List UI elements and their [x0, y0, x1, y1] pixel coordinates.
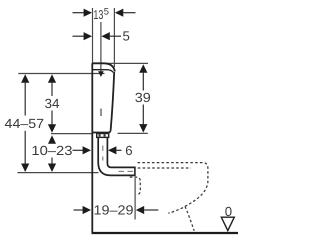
- dimension 6 line left tail: [73, 149, 84, 151]
- dimension 5 line right tail: [110, 35, 121, 37]
- reference line supply level left: [18, 73, 104, 75]
- dimension 44-57 arrow up: [21, 74, 29, 83]
- reference line cistern bottom left: [51, 133, 93, 135]
- dimension 5 arrow left: [84, 32, 92, 40]
- floor line: [92, 232, 239, 234]
- dimension 13.5 arrow right: [115, 9, 123, 17]
- extension line water supply: [100, 22, 102, 72]
- cistern bottom edge: [92, 130, 110, 133]
- extension line cistern front: [113, 8, 115, 67]
- dimension 5 arrow right: [101, 32, 109, 40]
- reference line cistern top right: [104, 62, 148, 64]
- dimension 39 arrow up: [139, 64, 147, 73]
- svg-text:5: 5: [123, 29, 130, 44]
- extension line back wall top: [92, 8, 94, 64]
- datum triangle: [221, 217, 234, 230]
- water supply marker arrow: [98, 71, 104, 77]
- dimension 34 arrow up: [48, 74, 56, 83]
- dimension 44-57 line upper: [24, 82, 26, 116]
- dimension 19-29 line right tail: [144, 209, 158, 211]
- svg-text:5: 5: [104, 6, 109, 17]
- dimension 6 line right tail: [116, 149, 121, 151]
- svg-text:39: 39: [135, 90, 151, 105]
- svg-text:34: 34: [45, 96, 60, 111]
- flush pipe outer edge: [98, 137, 135, 175]
- flush pipe horizontal centerline: [119, 170, 125, 172]
- reference line pipe bottom left: [18, 172, 99, 174]
- dimension 13.5 arrow left: [84, 9, 92, 17]
- cistern back edge and wall line: [91, 63, 93, 232]
- dimension 13.5 line left tail: [73, 12, 85, 14]
- dimension 39 line lower: [142, 105, 144, 125]
- dimension 44-57 arrow down: [21, 164, 29, 173]
- cistern lid joint line: [93, 70, 113, 73]
- svg-text:19–29: 19–29: [94, 203, 134, 218]
- dimension 34 line lower: [51, 111, 53, 125]
- dimension 44-57 line lower: [24, 131, 26, 165]
- flush pipe inner edge: [107, 137, 134, 167]
- toilet outlet dashed: [130, 177, 141, 195]
- svg-text:6: 6: [125, 143, 132, 158]
- toilet spud channel dashed: [138, 167, 191, 169]
- extension line outlet center: [134, 178, 136, 220]
- toilet rim and front outline dashed: [138, 163, 208, 214]
- dimension 5 line left tail: [73, 35, 85, 37]
- dimension 34 arrow down: [48, 124, 56, 133]
- dimension 19-29 line left tail: [74, 209, 84, 211]
- dimension 10-23 arrow up: [48, 135, 56, 144]
- svg-text:13: 13: [93, 7, 103, 22]
- water supply centerline dash: [100, 109, 102, 117]
- svg-text:44–57: 44–57: [5, 116, 45, 131]
- flush pipe vertical centerline: [102, 146, 104, 152]
- flush valve nut: [97, 134, 109, 138]
- dimension 13.5 line right tail: [123, 12, 135, 14]
- reference line cistern bottom right: [118, 132, 148, 134]
- dimension 19-29 arrow right: [136, 206, 144, 214]
- dimension 10-23 arrow down: [48, 164, 56, 173]
- dimension 39 line upper: [142, 72, 144, 91]
- dimension 19-29 arrow left: [83, 206, 91, 214]
- svg-text:10–23: 10–23: [31, 143, 72, 158]
- cistern front edge: [111, 72, 115, 130]
- dimension 34 line upper: [51, 82, 53, 96]
- flush pipe end cap: [134, 167, 136, 177]
- dimension 10-23 line lower: [51, 158, 53, 165]
- flush valve nut knurl marks: [99, 134, 101, 136]
- dimension 6 arrow left: [83, 146, 91, 154]
- toilet front foot dashed: [185, 207, 194, 231]
- dimension 6 arrow right: [108, 146, 116, 154]
- dimension 39 arrow down: [139, 124, 147, 133]
- cistern lid top: [92, 63, 115, 71]
